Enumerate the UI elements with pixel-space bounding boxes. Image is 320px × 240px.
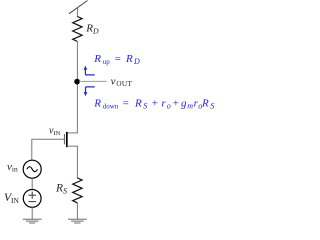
transistor M1 drain lead (67, 132, 78, 134)
node vOUT dot (74, 79, 80, 85)
transistor M1 source lead (67, 145, 78, 147)
resistor R_S (73, 178, 82, 203)
wire (node to v_OUT) (79, 80, 107, 82)
svg-text:vin: vin (7, 161, 18, 174)
dc source plus sign (28, 194, 36, 196)
svg-text:Rdown=RS+ro+gmroRS: Rdown=RS+ro+gmroRS (93, 98, 215, 111)
wire (dc source to ground) (31, 207, 33, 219)
dc source V_IN circle (23, 190, 41, 208)
annotation arrow R_down (bent, pointing down) (84, 87, 95, 96)
svg-text:vOUT: vOUT (111, 76, 133, 89)
ground (under R_S) (68, 219, 87, 223)
svg-text:vIN: vIN (49, 126, 61, 138)
dc source minus sign (28, 201, 36, 203)
annotation arrow R_up (bent, pointing up) (84, 66, 95, 75)
transistor M1 gate bar (63, 134, 65, 144)
transistor M1 channel bar (66, 132, 68, 147)
svg-text:Rup=RD: Rup=RD (93, 53, 140, 66)
wire (ac to dc source) (31, 178, 33, 189)
wire (R_D to drain corner, through node) (76, 42, 78, 134)
wire (R_S to ground) (76, 203, 78, 219)
wire (source to R_S) (76, 146, 78, 178)
svg-text:RD: RD (85, 23, 99, 36)
svg-text:RS: RS (55, 183, 67, 196)
svg-text:VIN: VIN (4, 192, 20, 205)
wire (gate lead) (32, 139, 65, 160)
wire (supply stub to R_D) (76, 8, 78, 17)
ac source v_in circle (23, 160, 41, 178)
supply rail diagonal (to VDD) (69, 1, 88, 14)
ground (under V_IN) (23, 219, 42, 223)
ac source sine (27, 167, 38, 172)
resistor R_D (73, 17, 82, 42)
